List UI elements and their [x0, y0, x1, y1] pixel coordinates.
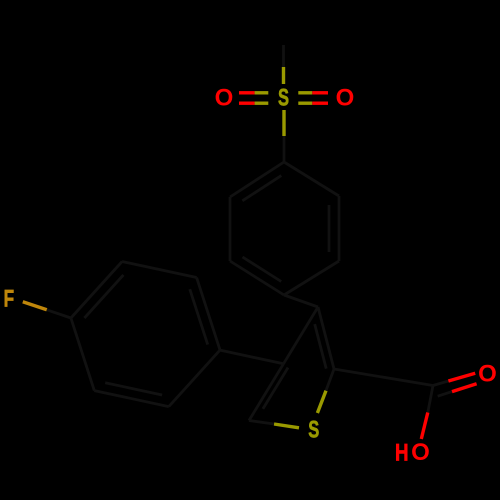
svg-text:O: O	[478, 361, 497, 388]
svg-text:O: O	[336, 85, 355, 112]
svg-text:O: O	[411, 439, 430, 466]
svg-text:H: H	[395, 439, 409, 466]
svg-text:F: F	[4, 286, 15, 313]
svg-text:O: O	[215, 85, 234, 112]
svg-text:S: S	[278, 85, 289, 112]
svg-text:S: S	[308, 417, 319, 444]
